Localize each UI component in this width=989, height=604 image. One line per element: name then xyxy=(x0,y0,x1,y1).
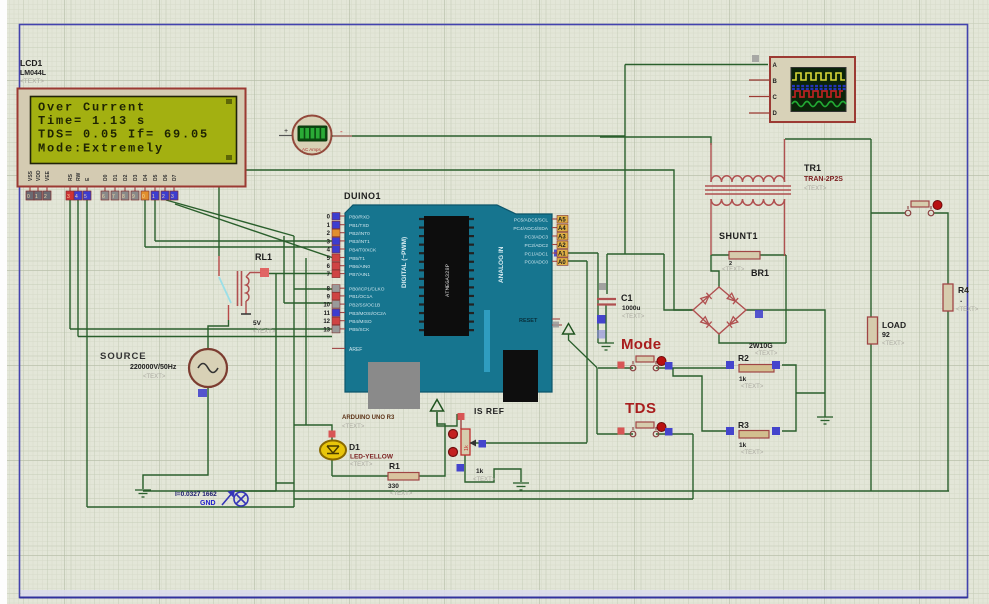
svg-text:Mode: Mode xyxy=(621,336,661,353)
svg-text:Mode:Extremely: Mode:Extremely xyxy=(38,141,164,155)
resistor LOAD xyxy=(868,317,907,347)
wire RW across xyxy=(78,336,332,338)
svg-text:PC5/ADC5/SCL: PC5/ADC5/SCL xyxy=(514,217,548,223)
svg-text:C: C xyxy=(773,95,778,101)
svg-text:2W10G: 2W10G xyxy=(749,343,773,350)
svg-text:<TEXT>: <TEXT> xyxy=(741,384,764,390)
junction squares near C1 xyxy=(599,283,606,290)
svg-text:D4: D4 xyxy=(143,174,149,181)
svg-text:<TEXT>: <TEXT> xyxy=(804,186,827,192)
svg-text:PC3/ADC3: PC3/ADC3 xyxy=(525,234,549,240)
svg-text:D5: D5 xyxy=(153,174,159,181)
svg-text:1000u: 1000u xyxy=(622,305,640,312)
svg-text:BR1: BR1 xyxy=(751,268,769,278)
wire A0 stub xyxy=(568,260,587,262)
resistor R3 xyxy=(726,420,780,456)
ground main GND xyxy=(135,490,151,497)
svg-text:<TEXT>: <TEXT> xyxy=(755,351,778,357)
svg-text:A0: A0 xyxy=(558,260,566,266)
wire LCD RS down xyxy=(69,200,71,329)
svg-text:<TEXT>: <TEXT> xyxy=(882,341,905,347)
svg-text:PB2/INT0: PB2/INT0 xyxy=(349,231,370,237)
potentiometer IS REF xyxy=(449,406,505,472)
svg-text:I=0.0327 1662: I=0.0327 1662 xyxy=(175,491,217,498)
svg-text:10: 10 xyxy=(323,303,330,309)
svg-text:RESET: RESET xyxy=(519,318,538,324)
svg-text:6: 6 xyxy=(102,194,105,200)
svg-text:PB5/SCK: PB5/SCK xyxy=(349,327,370,333)
wire C1 to ground xyxy=(605,304,607,343)
svg-text:13: 13 xyxy=(323,327,330,333)
ammeter AC AMPS xyxy=(279,116,352,155)
bridge rectifier BR1 xyxy=(693,287,746,334)
wire TDS right xyxy=(656,433,693,435)
svg-text:92: 92 xyxy=(882,332,890,339)
wire bus 3 xyxy=(87,506,294,508)
svg-text:3: 3 xyxy=(171,194,174,200)
svg-text:TR1: TR1 xyxy=(804,163,821,173)
svg-text:<TEXT>: <TEXT> xyxy=(741,450,764,456)
svg-text:R1: R1 xyxy=(389,461,400,471)
svg-text:2: 2 xyxy=(162,194,165,200)
wire jog to bridge top xyxy=(711,255,719,287)
svg-text:0: 0 xyxy=(27,194,30,200)
svg-text:<TEXT>: <TEXT> xyxy=(342,424,365,430)
ground under C1 xyxy=(598,343,614,350)
wire triangle to Mode row diagonal xyxy=(569,334,598,368)
wire down to bridge left xyxy=(664,254,693,310)
wire diagonal LCD D7 to pin5 xyxy=(175,204,332,258)
svg-text:PB0/RXD: PB0/RXD xyxy=(349,214,370,220)
wire TDS down to bus xyxy=(692,434,694,499)
svg-text:LCD1: LCD1 xyxy=(20,58,42,68)
svg-text:LM044L: LM044L xyxy=(20,70,47,77)
svg-text:B: B xyxy=(773,79,778,85)
arduino AREF pin xyxy=(332,347,345,349)
svg-text:D3: D3 xyxy=(133,174,139,181)
wire down to LOAD xyxy=(870,139,872,317)
wire D1 cathode down xyxy=(331,459,333,476)
svg-text:PB1/TXD: PB1/TXD xyxy=(349,223,370,229)
wire A1 stub xyxy=(568,252,598,254)
svg-text:9: 9 xyxy=(132,194,135,200)
svg-text:PC0/ADC0: PC0/ADC0 xyxy=(525,260,549,266)
wire tri to pot top xyxy=(437,412,457,426)
wire node column down to bus step xyxy=(293,289,295,483)
svg-text:RS: RS xyxy=(68,173,74,181)
svg-text:5: 5 xyxy=(84,194,87,200)
svg-text:A1: A1 xyxy=(558,252,566,258)
svg-text:12: 12 xyxy=(323,319,330,325)
resistor R1 xyxy=(388,461,419,497)
wire secondary right leg down xyxy=(785,255,787,343)
svg-text:TDS: TDS xyxy=(625,400,657,417)
wire switch to R4 xyxy=(934,213,948,284)
svg-text:<TEXT>: <TEXT> xyxy=(622,314,645,320)
svg-text:.: . xyxy=(960,295,962,304)
wire pot bottom loop xyxy=(465,455,521,482)
power terminal 5V triangle xyxy=(431,400,444,412)
svg-text:<TEXT>: <TEXT> xyxy=(253,329,276,335)
LED D1 xyxy=(320,431,346,460)
AC source SOURCE xyxy=(100,349,227,387)
svg-text:PB6/AIN0: PB6/AIN0 xyxy=(349,264,370,270)
wire to switch xyxy=(871,212,905,214)
svg-text:Over Current: Over Current xyxy=(38,101,146,115)
svg-text:1: 1 xyxy=(152,194,155,200)
svg-text:1: 1 xyxy=(35,194,38,200)
wire LCD RW down xyxy=(77,200,79,337)
svg-text:R3: R3 xyxy=(738,420,749,430)
svg-text:7: 7 xyxy=(112,194,115,200)
wire R2-R3 right link xyxy=(782,365,796,431)
svg-text:RW: RW xyxy=(76,172,82,181)
arduino left pin terminals 0-13 xyxy=(323,213,387,334)
svg-text:IS REF: IS REF xyxy=(474,406,504,416)
svg-text:4: 4 xyxy=(75,194,78,200)
wire C1 top row xyxy=(607,253,664,255)
arduino USB connector xyxy=(368,362,420,409)
svg-text:PB5/T1: PB5/T1 xyxy=(349,256,365,262)
svg-text:C1: C1 xyxy=(621,293,633,303)
resistor R2 xyxy=(726,353,780,390)
power terminal 5V under relay xyxy=(241,313,251,315)
svg-text:PC1/ADC1: PC1/ADC1 xyxy=(525,251,549,257)
svg-text:RL1: RL1 xyxy=(255,252,272,262)
wire RS to pin13 xyxy=(70,328,332,330)
svg-text:TDS= 0.05 If= 69.05: TDS= 0.05 If= 69.05 xyxy=(38,128,209,142)
svg-text:ATMEGA328P: ATMEGA328P xyxy=(444,264,451,297)
wire pot top pin xyxy=(460,420,462,429)
LCD LCD1 body xyxy=(18,89,246,187)
svg-text:AREF: AREF xyxy=(349,347,362,353)
svg-text:<TEXT>: <TEXT> xyxy=(20,78,44,85)
wire LCD right to bridge left xyxy=(246,170,693,310)
svg-text:A5: A5 xyxy=(558,218,566,224)
svg-text:2: 2 xyxy=(44,194,47,200)
svg-text:0: 0 xyxy=(142,194,145,200)
svg-text:DIGITAL (~PWM): DIGITAL (~PWM) xyxy=(401,237,408,288)
push button Mode xyxy=(618,336,673,371)
svg-text:<TEXT>: <TEXT> xyxy=(722,267,745,273)
svg-text:D1: D1 xyxy=(349,442,360,452)
svg-text:11: 11 xyxy=(324,311,331,317)
wire probe row xyxy=(230,490,276,492)
wire to TR1 primary left xyxy=(600,137,711,145)
svg-text:D: D xyxy=(773,111,778,117)
wire Mode column down to TDS row xyxy=(596,368,598,434)
wire relay coil to pin7 xyxy=(269,273,332,275)
wire down to C1 xyxy=(606,254,608,294)
svg-text:<TEXT>: <TEXT> xyxy=(350,462,373,468)
svg-text:GND: GND xyxy=(200,500,216,507)
svg-text:SHUNT1: SHUNT1 xyxy=(719,231,758,241)
svg-text:<TEXT>: <TEXT> xyxy=(956,307,979,313)
window edge strip xyxy=(0,0,7,604)
wire A1 down to ground bar xyxy=(597,253,599,343)
wire master bottom bus xyxy=(143,490,949,492)
svg-text:5V: 5V xyxy=(253,320,262,327)
svg-text:R2: R2 xyxy=(738,353,749,363)
svg-text:<TEXT>: <TEXT> xyxy=(143,374,166,380)
svg-text:1k: 1k xyxy=(739,442,747,449)
svg-text:VDD: VDD xyxy=(36,170,42,181)
svg-text:PC4/ADC4/SDA: PC4/ADC4/SDA xyxy=(513,226,548,232)
wire probe step xyxy=(276,482,294,484)
wire source to ground xyxy=(143,387,208,489)
svg-text:<TEXT>: <TEXT> xyxy=(390,491,413,497)
svg-text:ARDUINO UNO R3: ARDUINO UNO R3 xyxy=(342,415,395,421)
svg-text:TRAN-2P2S: TRAN-2P2S xyxy=(804,176,843,183)
svg-text:A2: A2 xyxy=(558,243,566,249)
wire Mode branch down to R3 xyxy=(673,368,726,431)
arduino DUINO1 xyxy=(344,191,552,392)
wire LCD D4 down xyxy=(144,200,146,247)
transformer TR1 xyxy=(705,139,791,256)
svg-text:D7: D7 xyxy=(172,174,178,181)
wire into pin10 xyxy=(284,302,332,304)
svg-text:PB0/ICP1/CLKO: PB0/ICP1/CLKO xyxy=(349,287,385,293)
wire TR1 primary right up/right xyxy=(785,138,871,140)
svg-text:Time= 1.13 s: Time= 1.13 s xyxy=(38,114,146,128)
wire R4 down to bus xyxy=(947,311,949,491)
wire Mode to R2 left xyxy=(656,367,726,369)
wire bridge out to ground stem xyxy=(746,310,825,417)
wire A0 down to pot wiper row xyxy=(586,261,588,443)
svg-text:DUINO1: DUINO1 xyxy=(344,191,381,201)
svg-text:A4: A4 xyxy=(558,226,566,232)
wire to scope channel A xyxy=(625,64,768,66)
svg-text:VSS: VSS xyxy=(28,170,34,181)
wire bridge bottom link xyxy=(719,334,786,343)
wire into pin8 xyxy=(294,288,332,290)
wire LCD D5 down xyxy=(154,200,156,241)
wire LOAD down to bus xyxy=(870,344,872,491)
svg-text:PB4/T0/XCK: PB4/T0/XCK xyxy=(349,247,377,253)
svg-text:PB3/MOSI/OC2A: PB3/MOSI/OC2A xyxy=(349,311,387,317)
svg-text:D6: D6 xyxy=(163,174,169,181)
wire pin7 column down to probe step xyxy=(275,274,277,484)
wire branch to R2R3 bus xyxy=(796,392,825,394)
LCD LCD1 screen xyxy=(31,97,237,164)
wire D4 to pin4 xyxy=(145,246,332,248)
svg-text:-: - xyxy=(340,127,343,136)
svg-text:PB4/MISO: PB4/MISO xyxy=(349,319,372,325)
wire probe step down xyxy=(275,483,277,491)
svg-text:+: + xyxy=(284,128,288,135)
svg-text:1k: 1k xyxy=(739,376,747,383)
svg-text:PB7/AIN1: PB7/AIN1 xyxy=(349,272,370,278)
wire ammeter minus across xyxy=(332,135,625,137)
wire R1 to power tri xyxy=(419,412,445,476)
svg-text:PB3/INT1: PB3/INT1 xyxy=(349,239,370,245)
wire to D1 anode xyxy=(294,425,332,440)
arduino power jack xyxy=(503,350,538,402)
capacitor C1 xyxy=(597,299,616,305)
ground under IS REF xyxy=(513,483,529,490)
wire into shunt xyxy=(711,254,729,256)
push button TDS xyxy=(618,400,673,437)
resistor R4 xyxy=(943,284,979,313)
svg-text:220000V/50Hz: 220000V/50Hz xyxy=(130,364,177,371)
svg-text:8: 8 xyxy=(122,194,125,200)
svg-text:ANALOG IN: ANALOG IN xyxy=(498,246,505,283)
wire to R1 xyxy=(332,475,388,477)
svg-text:3: 3 xyxy=(67,194,70,200)
wire pin5 area down xyxy=(305,258,307,425)
svg-text:PB1/OC1A: PB1/OC1A xyxy=(349,294,373,300)
push button top right xyxy=(905,201,942,216)
LCD pin terminals xyxy=(29,186,31,191)
wire LCD E long down xyxy=(86,200,88,507)
svg-text:LOAD: LOAD xyxy=(882,320,906,330)
wire D5 to pin3 xyxy=(155,240,332,242)
svg-text:SOURCE: SOURCE xyxy=(100,351,147,362)
svg-text:D1: D1 xyxy=(113,174,119,181)
oscilloscope xyxy=(749,55,855,122)
svg-text:330: 330 xyxy=(388,483,399,490)
wire pot wiper to A0 column xyxy=(470,442,587,444)
svg-text:D2: D2 xyxy=(123,174,129,181)
junction node BR1 out xyxy=(755,310,763,318)
wire diagonal LCD D6 to node xyxy=(166,200,294,236)
wire A1 net into Mode xyxy=(598,367,633,369)
relay RL1 xyxy=(219,252,272,320)
wire bus 2 xyxy=(294,498,693,500)
wire shunt to right leg xyxy=(760,254,786,256)
svg-text:A: A xyxy=(773,63,778,69)
wire vertical from LCD to relay switch xyxy=(218,187,220,256)
arduino right pin terminals A5-A0 xyxy=(513,216,568,266)
junction square at A1 xyxy=(554,250,561,257)
svg-text:D0: D0 xyxy=(103,174,109,181)
svg-text:PB2/SS/OC1B: PB2/SS/OC1B xyxy=(349,302,380,308)
svg-text:<TEXT>: <TEXT> xyxy=(473,477,496,483)
svg-text:1k: 1k xyxy=(476,468,484,475)
svg-text:LED-YELLOW: LED-YELLOW xyxy=(350,454,394,461)
junction probe square xyxy=(198,389,207,397)
wire vertical to scope A / C1 row xyxy=(624,65,626,255)
ground under BR1 output xyxy=(817,417,833,424)
probe icon xyxy=(222,491,248,506)
wire branch down xyxy=(283,236,285,303)
power terminal triangle near reset xyxy=(563,324,575,335)
svg-text:R4: R4 xyxy=(958,285,969,295)
wire relay to source xyxy=(208,320,229,349)
wire bus step link xyxy=(293,483,295,507)
wire TDS left xyxy=(597,433,633,435)
svg-text:A3: A3 xyxy=(558,235,566,241)
svg-text:VEE: VEE xyxy=(45,170,51,181)
wire node down to pin8 xyxy=(293,236,295,289)
svg-text:1k: 1k xyxy=(464,445,470,451)
svg-text:PC2/ADC2: PC2/ADC2 xyxy=(525,243,549,249)
arduino chip ATMEGA328 xyxy=(419,216,474,336)
svg-text:AC Amps: AC Amps xyxy=(302,147,322,152)
